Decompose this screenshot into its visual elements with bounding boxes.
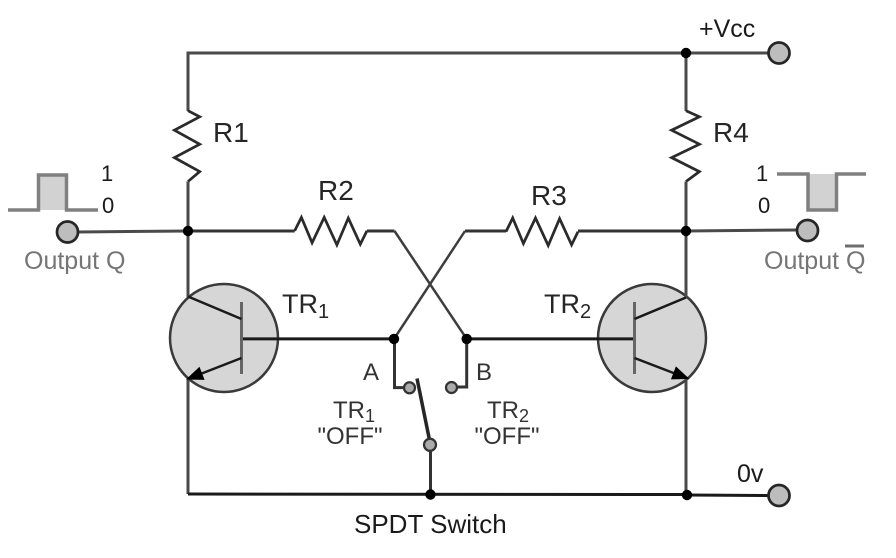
junction node Output Qbar xyxy=(681,226,691,236)
wire Output Qbar lead xyxy=(686,230,797,231)
junction node B xyxy=(462,334,472,344)
terminal +Vcc xyxy=(769,43,790,64)
resistor R1 xyxy=(174,111,199,182)
transistor TR2 emitter line xyxy=(635,358,681,376)
resistor R4 xyxy=(672,111,700,182)
wire bottom rail xyxy=(188,493,687,497)
svg-text:1: 1 xyxy=(756,161,768,186)
junction node A xyxy=(389,334,399,344)
wire Output Q node to R2 xyxy=(188,230,295,233)
resistor R2 xyxy=(295,217,367,245)
svg-text:R2: R2 xyxy=(318,175,354,206)
terminal 0v xyxy=(769,485,790,506)
switch contact B xyxy=(446,382,457,393)
terminal Output Qbar xyxy=(797,220,818,241)
wire top rail xyxy=(188,52,686,55)
transistor TR1 base bar xyxy=(240,302,243,374)
wire node A to switch contact A xyxy=(395,339,404,388)
junction bottom rail at 0v xyxy=(682,490,692,500)
svg-text:Output Q: Output Q xyxy=(24,247,125,275)
wire left vertical bottom (TR1 emitter to bottom rail) xyxy=(187,378,190,494)
wire left vertical top (rail to R1) xyxy=(187,52,190,112)
transistor TR2 base bar xyxy=(633,302,636,374)
waveform pulse Qbar xyxy=(809,174,837,210)
waveform pulse Q xyxy=(39,175,67,210)
wire R2 to crossover xyxy=(367,230,395,233)
wire right vertical (R4 to TR2 collector) xyxy=(685,182,688,298)
junction node Output Q xyxy=(183,226,193,236)
svg-text:0: 0 xyxy=(102,193,114,218)
svg-text:SPDT Switch: SPDT Switch xyxy=(354,509,507,539)
switch common contact xyxy=(424,439,436,451)
svg-text:R3: R3 xyxy=(531,180,567,211)
wire crossover diagonal R3 to node A xyxy=(394,231,465,339)
wire switch common to bottom rail xyxy=(429,451,432,495)
wire TR1 base lead xyxy=(242,337,395,340)
transistor TR1 body xyxy=(170,284,278,392)
switch contact A xyxy=(404,382,415,393)
svg-text:0: 0 xyxy=(758,193,770,218)
svg-text:+Vcc: +Vcc xyxy=(699,15,755,43)
wire 0v lead xyxy=(687,494,768,498)
transistor TR2 body xyxy=(598,284,706,392)
junction top rail at Vcc xyxy=(681,48,691,58)
svg-text:R4: R4 xyxy=(713,117,749,148)
resistor R3 xyxy=(506,218,578,246)
wire TR2 base lead xyxy=(467,337,635,340)
svg-text:R1: R1 xyxy=(213,117,249,148)
wire node B to switch contact B xyxy=(458,339,467,387)
junction switch to bottom rail xyxy=(425,489,435,499)
wire +Vcc lead xyxy=(686,52,768,55)
transistor TR2 emitter arrow xyxy=(672,368,687,378)
wire crossover to R3 xyxy=(465,230,506,233)
svg-text:"OFF": "OFF" xyxy=(474,423,539,450)
svg-text:B: B xyxy=(476,359,492,386)
wire Output Q lead xyxy=(78,231,189,232)
transistor TR1 emitter line xyxy=(194,358,242,377)
wire right vertical top (rail to R4) xyxy=(685,52,688,112)
wire crossover diagonal R2 to node B xyxy=(395,231,467,339)
svg-text:"OFF": "OFF" xyxy=(317,423,382,450)
wire left vertical (R1 to TR1 collector) xyxy=(187,182,190,298)
transistor TR1 collector line xyxy=(188,297,242,320)
wire R3 to Output Qbar node xyxy=(578,230,686,233)
overline for Qbar xyxy=(845,245,864,248)
transistor TR2 collector line xyxy=(635,298,687,320)
svg-text:1: 1 xyxy=(101,161,113,186)
transistor TR1 emitter arrow xyxy=(189,369,204,379)
wire right vertical bottom (TR2 emitter to bottom rail) xyxy=(685,378,688,495)
terminal Output Q xyxy=(57,222,78,243)
switch lever xyxy=(417,379,430,441)
svg-text:0v: 0v xyxy=(737,460,764,488)
svg-text:A: A xyxy=(363,359,379,386)
svg-text:Output Q: Output Q xyxy=(764,247,865,275)
